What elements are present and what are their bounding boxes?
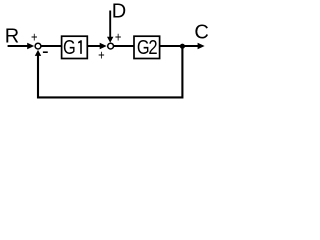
- block G1 label 1: [78, 40, 82, 54]
- block G2 box: [134, 36, 160, 58]
- svg-text:+: +: [98, 47, 105, 62]
- svg-text:2: 2: [148, 36, 157, 59]
- svg-text:+: +: [31, 29, 38, 44]
- summing junction S1: [35, 43, 41, 49]
- svg-text:-: -: [42, 41, 49, 63]
- svg-text:D: D: [112, 1, 126, 23]
- wire G2 to output C (with arrowhead): [160, 43, 205, 49]
- arrowhead feedback into S1: [35, 50, 41, 56]
- wire S1 to block G1: [41, 45, 62, 47]
- wire R to summing junction S1 (with arrowhead): [8, 43, 35, 49]
- svg-text:C: C: [194, 22, 208, 44]
- svg-text:R: R: [5, 26, 19, 48]
- svg-text:G: G: [63, 35, 76, 58]
- node: takeoff point junction dot: [180, 44, 185, 49]
- svg-text:+: +: [115, 29, 122, 44]
- wire feedback path (takeoff point down, along bottom, up to S1): [38, 46, 182, 97]
- wire S2 to block G2: [113, 45, 134, 47]
- summing junction S2: [108, 43, 114, 49]
- block G1 box: [62, 36, 88, 58]
- wire G1 to summing junction S2 (with arrowhead): [87, 43, 106, 49]
- wire D to summing junction S2 (with arrowhead): [107, 11, 113, 43]
